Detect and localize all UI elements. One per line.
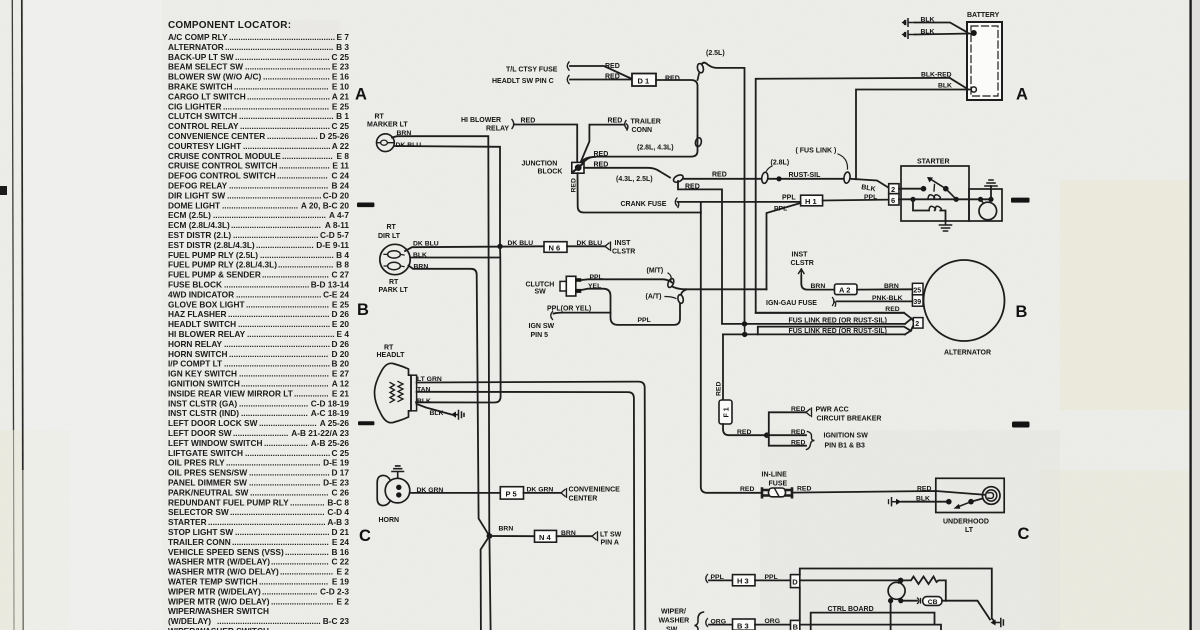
label UNDERHOOD LT <box>943 519 989 535</box>
svg-text:E 25: E 25 <box>332 299 349 309</box>
coil2 to ground <box>940 211 945 222</box>
curly bracket wiper sw <box>695 612 704 630</box>
svg-text:INST CLSTR (IND): INST CLSTR (IND) <box>168 408 239 418</box>
label BRN right of N4 <box>561 530 576 537</box>
label DK GRN left <box>417 487 444 494</box>
junction block lower feed: down, right, T at x700 <box>578 173 701 212</box>
svg-text:B 16: B 16 <box>331 547 349 557</box>
svg-text:E 2: E 2 <box>337 567 350 577</box>
motor terminal dots <box>888 598 893 603</box>
in-line fuse symbol <box>762 488 792 497</box>
battery box <box>967 22 1002 100</box>
svg-text:WIPER MTR (W/O DELAY): WIPER MTR (W/O DELAY) <box>168 596 270 606</box>
svg-text:B-C 23: B-C 23 <box>323 616 350 626</box>
svg-text:RED: RED <box>685 184 700 191</box>
svg-text:DK GRN: DK GRN <box>527 487 554 494</box>
starter solenoid wire pin6 <box>899 198 991 200</box>
svg-text:P 5: P 5 <box>506 490 517 499</box>
svg-text:RED: RED <box>791 440 805 447</box>
banner1 tip to pin 2 <box>912 319 914 321</box>
svg-text:HORN SWITCH: HORN SWITCH <box>168 349 227 359</box>
svg-text:..............................: ........................................… <box>224 359 330 369</box>
svg-text:E 19: E 19 <box>332 577 349 587</box>
wire T/L ctsy fuse to D1 <box>570 66 631 79</box>
ground stub 2 at battery <box>902 31 916 38</box>
wire junction block up-right to D1 branch <box>582 157 596 162</box>
svg-text:OIL PRES RLY: OIL PRES RLY <box>168 458 225 468</box>
svg-text:A/C COMP RLY: A/C COMP RLY <box>168 32 228 42</box>
connector bracket headlt sw pin C <box>567 76 569 84</box>
svg-text:DIR LT: DIR LT <box>378 233 401 240</box>
fusible loop (2.5L) <box>698 74 700 81</box>
svg-text:A: A <box>1016 86 1028 104</box>
svg-text:(M/T): (M/T) <box>647 267 664 274</box>
underhood switch dots <box>946 499 952 505</box>
label RED jb wire2 <box>594 162 609 169</box>
label (4.3L, 2.5L) <box>616 176 653 183</box>
svg-text:D 17: D 17 <box>331 468 349 478</box>
svg-text:INST CLSTR (GA): INST CLSTR (GA) <box>168 398 237 408</box>
svg-text:RED: RED <box>521 118 536 125</box>
wire DK BLU dir lamp to N6 <box>405 246 544 251</box>
wire rust-sil run to 2.8L loop <box>683 178 761 180</box>
svg-text:FUEL PUMP & SENDER: FUEL PUMP & SENDER <box>168 270 261 280</box>
wire BRN junction straight down <box>489 536 490 630</box>
wire branch middle to ignition sw <box>767 434 806 436</box>
label DK BLU mid <box>508 240 534 247</box>
wire BLK battery top 2 <box>915 34 971 35</box>
connector bracket trailer conn <box>625 121 628 131</box>
label PPL crank <box>782 195 796 202</box>
svg-text:IGNITION SW: IGNITION SW <box>824 432 869 439</box>
motor ground riser <box>990 186 992 199</box>
svg-text:FUSE BLOCK: FUSE BLOCK <box>168 280 222 290</box>
wire D to wiper motor <box>800 579 901 581</box>
svg-text:BEAM SELECT SW: BEAM SELECT SW <box>168 62 243 72</box>
junction block box <box>572 162 584 173</box>
svg-text:HI BLOWER: HI BLOWER <box>461 117 501 124</box>
alternator pin 39 box <box>912 295 923 306</box>
svg-text:..............................: ........................................… <box>227 190 322 200</box>
label RED rotated at F1 <box>716 382 723 396</box>
svg-text:.........................: ......................... <box>259 418 317 428</box>
label INST CLSTR upper <box>791 252 814 268</box>
H1 connector box <box>801 195 823 206</box>
label RED ign mid <box>791 429 805 436</box>
wire BRN junction continuation down-left <box>481 536 490 630</box>
long vertical x700 down to in-line fuse <box>701 213 762 493</box>
svg-text:..............................: ........................................… <box>224 339 330 349</box>
connector D <box>791 575 800 588</box>
svg-text:RED: RED <box>594 151 609 158</box>
terminator inst clstr wire <box>605 242 611 251</box>
svg-text:RT: RT <box>387 224 397 231</box>
leader fus link label <box>838 154 848 169</box>
wire motor to CB <box>901 600 917 602</box>
wire BRN from marker light down page <box>392 136 489 536</box>
svg-text:E 8: E 8 <box>337 151 350 161</box>
svg-text:B-C 8: B-C 8 <box>327 497 349 507</box>
svg-text:(W/DELAY): (W/DELAY) <box>168 616 211 626</box>
junction dot on motor top <box>898 578 904 584</box>
svg-text:CONVENIENCE CENTER: CONVENIENCE CENTER <box>168 131 265 141</box>
RT dir/park lamp <box>380 244 410 274</box>
svg-text:CONVENIENCE: CONVENIENCE <box>569 487 621 494</box>
wire motor left terminal down <box>890 601 892 630</box>
svg-text:(4.3L, 2.5L): (4.3L, 2.5L) <box>616 176 653 183</box>
svg-text:PANEL DIMMER SW: PANEL DIMMER SW <box>168 478 247 488</box>
starter ground symbol <box>940 221 952 231</box>
connector bracket T/L ctsy fuse <box>567 62 569 70</box>
label PPL(OR YEL) <box>547 306 591 313</box>
starter switch contact dots <box>921 186 927 192</box>
svg-text:RED: RED <box>917 485 931 492</box>
wire A2 to pin 25 <box>857 288 912 290</box>
riser x700 to crank wire <box>700 202 702 213</box>
svg-text:T/L CTSY FUSE: T/L CTSY FUSE <box>506 67 558 74</box>
starter switch arm <box>930 179 946 189</box>
connector B3 <box>733 619 756 630</box>
connector N4 <box>535 530 557 542</box>
label ORG wiper right <box>765 618 780 625</box>
svg-text:..............................: ..................................... <box>236 289 321 299</box>
leader 2.8L label <box>767 166 773 171</box>
svg-text:RUST-SIL: RUST-SIL <box>789 172 822 179</box>
connector B <box>791 620 800 631</box>
svg-text:C 27: C 27 <box>331 270 349 280</box>
connector P5 <box>500 487 523 499</box>
stub connecting banner dots <box>744 324 746 335</box>
wire N4 to LT SW PIN A <box>557 535 593 537</box>
label BLK ground wire <box>430 410 444 417</box>
junction dot banner2 x745 <box>742 332 747 337</box>
bracket ORG wiper <box>706 619 708 627</box>
label JUNCTION BLOCK <box>522 161 563 176</box>
svg-text:BRN: BRN <box>811 283 826 290</box>
svg-text:GLOVE BOX LIGHT: GLOVE BOX LIGHT <box>168 299 245 309</box>
svg-text:6: 6 <box>891 196 895 205</box>
label RT PARK LT <box>379 279 409 294</box>
wire node to PPL riser <box>686 288 767 290</box>
solenoid coil 2 branch <box>913 199 929 210</box>
svg-text:ORG: ORG <box>711 618 726 625</box>
label WIPER/WASHER SW <box>659 609 690 634</box>
starter motor circle <box>979 202 997 220</box>
svg-text:RED: RED <box>665 76 680 83</box>
svg-text:E 16: E 16 <box>332 72 349 82</box>
svg-text:BLK: BLK <box>938 83 952 90</box>
svg-text:IN-LINE: IN-LINE <box>762 472 788 479</box>
svg-text:HEADLT SW PIN C: HEADLT SW PIN C <box>492 78 554 85</box>
svg-text:A 2: A 2 <box>839 286 850 295</box>
wire TAN headlight <box>417 392 635 630</box>
svg-text:..............................: .............................. <box>259 577 328 587</box>
wire B connector into board <box>800 625 941 630</box>
connector N6 <box>544 242 567 253</box>
label BLK-RED <box>921 72 952 79</box>
label LT SW PIN A <box>600 531 622 546</box>
svg-text:A 20, B-C 20: A 20, B-C 20 <box>301 200 349 210</box>
svg-text:CRUISE CONTROL MODULE: CRUISE CONTROL MODULE <box>168 151 281 161</box>
svg-text:2: 2 <box>891 185 895 194</box>
label PPL before pin6 <box>864 194 877 201</box>
svg-text:UNDERHOOD: UNDERHOOD <box>943 519 989 526</box>
svg-text:INSIDE REAR VIEW MIRROR LT: INSIDE REAR VIEW MIRROR LT <box>168 388 293 398</box>
breaker CB box <box>923 597 942 606</box>
label HEADLT SW PIN C <box>492 78 554 85</box>
svg-text:PIN A: PIN A <box>601 539 619 546</box>
svg-text:DEFOG RELAY: DEFOG RELAY <box>168 181 228 191</box>
svg-text:COURTESY LIGHT: COURTESY LIGHT <box>168 141 241 151</box>
svg-text:...................: ................... <box>285 547 329 557</box>
label DK GRN right <box>527 487 554 494</box>
svg-text:A 25-26: A 25-26 <box>320 418 350 428</box>
left page edge line 1 <box>12 0 13 430</box>
svg-text:..............................: ........................................… <box>235 52 330 62</box>
svg-text:DOME LIGHT: DOME LIGHT <box>168 200 220 210</box>
svg-text:MARKER LT: MARKER LT <box>367 122 408 129</box>
alternator circle <box>924 260 1005 341</box>
svg-text:E 10: E 10 <box>332 82 349 92</box>
label PPL wiper right <box>765 574 778 581</box>
label RED on headlt wire <box>605 74 620 81</box>
svg-text:.......................: ....................... <box>280 567 333 577</box>
wire A/T loop to node <box>681 290 686 295</box>
svg-text:..............................: ...................................... <box>247 329 335 339</box>
wire stub loop to red vertical branch <box>678 181 722 324</box>
svg-text:PPL: PPL <box>864 194 877 201</box>
svg-text:LEFT WINDOW SWITCH: LEFT WINDOW SWITCH <box>168 438 262 448</box>
svg-text:A: A <box>355 86 367 104</box>
label ALTERNATOR <box>944 350 991 357</box>
label TRAILER CONN <box>631 119 661 135</box>
svg-text:E 2: E 2 <box>337 596 350 606</box>
svg-text:.............................: ............................. <box>262 270 329 280</box>
svg-text:PPL: PPL <box>765 574 778 581</box>
svg-text:RED: RED <box>594 162 609 169</box>
svg-text:C 25: C 25 <box>331 121 349 131</box>
wire 2.5L branch to x745 vertical <box>702 63 745 324</box>
fus link banner 1 wire line <box>722 323 905 325</box>
svg-text:RED: RED <box>712 172 727 179</box>
svg-text:..............................: .................................. <box>250 487 328 497</box>
svg-text:D: D <box>792 578 798 587</box>
connector bracket ign sw <box>551 312 553 320</box>
svg-text:C 25: C 25 <box>331 52 349 62</box>
svg-text:PPL: PPL <box>711 574 724 581</box>
label PPL on riser diagonal <box>774 206 787 213</box>
svg-text:SELECTOR SW: SELECTOR SW <box>168 507 229 517</box>
svg-text:E 20: E 20 <box>332 319 349 329</box>
section divider dash left A/B <box>357 203 374 208</box>
svg-text:FUEL PUMP RLY (2.8L/4.3L): FUEL PUMP RLY (2.8L/4.3L) <box>168 260 277 270</box>
svg-text:(A/T): (A/T) <box>646 293 662 300</box>
svg-text:TRAILER: TRAILER <box>631 119 661 126</box>
fusible loop (2.8L) <box>761 172 769 184</box>
svg-text:B-D 13-14: B-D 13-14 <box>311 280 350 290</box>
wire BLK park lamp down to headlt blk <box>410 246 500 402</box>
svg-text:BRN: BRN <box>884 283 899 290</box>
horn symbol <box>385 478 410 503</box>
svg-text:WIPER/WASHER SWITCH: WIPER/WASHER SWITCH <box>168 626 269 630</box>
horn ground symbol <box>392 466 404 478</box>
svg-text:..............................: ............................... <box>249 478 320 488</box>
svg-text:..............................: ........................................… <box>234 82 329 92</box>
connector H3 <box>733 575 756 586</box>
svg-text:B: B <box>1016 303 1028 321</box>
svg-text:BLK: BLK <box>921 17 935 24</box>
svg-text:..............................: ................................ <box>260 250 334 260</box>
svg-text:PIN B1 & B3: PIN B1 & B3 <box>825 442 866 449</box>
underhood lt box <box>936 478 1004 512</box>
label RED hi blower wire <box>521 118 536 125</box>
svg-text:ORG: ORG <box>765 618 780 625</box>
label HI BLOWER RELAY <box>461 117 509 133</box>
svg-text:..............................: ...................................... <box>243 141 331 151</box>
svg-text:E 23: E 23 <box>332 62 349 72</box>
PPL riser from clutch run to H1 <box>767 203 801 289</box>
starter pin 2 box <box>889 184 899 194</box>
label PNK-BLK <box>872 295 903 302</box>
svg-text:STARTER: STARTER <box>168 517 207 527</box>
wire hi blower relay to junction block <box>514 125 577 163</box>
svg-text:...................: ................... <box>264 438 308 448</box>
component locator list <box>168 20 349 635</box>
connector D1 <box>632 74 656 87</box>
wire to H3 <box>709 579 733 581</box>
label ( FUS LINK ) <box>796 148 837 155</box>
svg-text:ECM (2.5L): ECM (2.5L) <box>168 210 211 220</box>
svg-text:WIPER/WASHER SWITCH: WIPER/WASHER SWITCH <box>168 606 269 616</box>
svg-text:D 20: D 20 <box>331 349 349 359</box>
label RED jb wire1 <box>594 151 609 158</box>
leader A/T <box>665 297 676 299</box>
svg-text:SW: SW <box>535 289 547 296</box>
label RED after F1 <box>737 429 751 436</box>
wire BLK battery top 1 <box>915 23 968 33</box>
label TAN <box>417 386 431 393</box>
svg-text:WATER TEMP SWTICH: WATER TEMP SWTICH <box>168 577 258 587</box>
svg-text:A 4-7: A 4-7 <box>329 210 349 220</box>
wire ign sw pin5 to YEL descender <box>554 312 611 315</box>
svg-text:B 3: B 3 <box>336 42 349 52</box>
headlight filaments <box>398 382 403 402</box>
svg-text:D-E 23: D-E 23 <box>323 478 349 488</box>
svg-text:CIG LIGHTER: CIG LIGHTER <box>168 101 221 111</box>
label LT GRN <box>417 376 442 383</box>
underhood bulb <box>982 487 1000 505</box>
label PWR ACC CIRCUIT BREAKER <box>816 407 882 423</box>
svg-text:..............................: ........................................… <box>235 527 330 537</box>
label DK BLU right <box>577 240 603 247</box>
inst clstr arrow <box>799 269 805 276</box>
left page edge line 2 <box>22 0 23 470</box>
label BRN before A2 <box>811 283 826 290</box>
wire D1 output to 2.5L loop and down-branch <box>656 80 698 136</box>
svg-text:TRAILER CONN: TRAILER CONN <box>168 537 231 547</box>
svg-text:A 22: A 22 <box>332 141 350 151</box>
label BRN left of N4 <box>499 526 514 533</box>
label CTRL BOARD <box>828 606 874 613</box>
svg-text:...........................: ........................... <box>271 596 333 606</box>
svg-text:BLK: BLK <box>413 252 427 259</box>
fusible loop (2.8L,4.3L) on down branch <box>695 137 703 147</box>
svg-text:CONN: CONN <box>632 127 653 134</box>
svg-text:..............................: .................................... <box>247 91 330 101</box>
starter motor housing box <box>969 189 1002 221</box>
label ORG wiper left <box>711 618 726 625</box>
svg-text:C: C <box>359 527 371 545</box>
battery top terminal <box>971 30 977 36</box>
junction block bus blob <box>575 164 582 171</box>
svg-text:REDUNDANT FUEL PUMP RLY: REDUNDANT FUEL PUMP RLY <box>168 497 289 507</box>
label BLK batt2 <box>921 29 935 36</box>
label BRN before pin25 <box>884 283 899 290</box>
svg-text:C-D 5-7: C-D 5-7 <box>320 230 349 240</box>
label CONVENIENCE CENTER <box>569 487 621 503</box>
svg-text:39: 39 <box>913 299 921 306</box>
svg-text:BLK: BLK <box>430 410 444 417</box>
svg-text:LT GRN: LT GRN <box>417 376 442 383</box>
svg-text:RED: RED <box>605 74 620 81</box>
connector A2 <box>835 284 858 295</box>
connector bracket hi blower relay <box>512 120 514 129</box>
svg-text:..............................: ........................................… <box>226 458 321 468</box>
wire BLK battery to starter pin2 <box>856 90 971 180</box>
svg-text:BRN: BRN <box>414 263 429 270</box>
svg-text:HI BLOWER RELAY: HI BLOWER RELAY <box>168 329 246 339</box>
svg-text:DK BLU: DK BLU <box>508 240 534 247</box>
label DK BLU lamp <box>413 241 439 248</box>
svg-text:RED: RED <box>605 63 620 70</box>
connector bracket crank fuse <box>675 198 679 208</box>
svg-text:CLUTCH SWITCH: CLUTCH SWITCH <box>168 111 237 121</box>
svg-text:......................: ...................... <box>277 171 328 181</box>
svg-text:D-E 19: D-E 19 <box>323 458 349 468</box>
ctrl board box <box>800 569 996 623</box>
svg-text:A 8-11: A 8-11 <box>325 220 350 230</box>
svg-text:D 26: D 26 <box>331 339 349 349</box>
svg-text:HAZ FLASHER: HAZ FLASHER <box>168 309 227 319</box>
wire switch to solenoid run <box>946 189 956 200</box>
svg-text:RED: RED <box>791 406 805 413</box>
label BLK headlight <box>417 398 431 405</box>
wire F1 to branch dot <box>723 424 767 435</box>
label RED above banner1 <box>885 306 899 313</box>
label CRANK FUSE <box>621 201 667 208</box>
label BLK batt1 <box>921 17 935 24</box>
label BLK slanted at pin2 <box>861 184 876 193</box>
svg-text:STOP LIGHT SW: STOP LIGHT SW <box>168 527 233 537</box>
bracket ign-gau fuse <box>833 298 836 307</box>
battery inner dashed border <box>971 26 998 96</box>
svg-text:WASHER MTR (W/DELAY): WASHER MTR (W/DELAY) <box>168 557 270 567</box>
wiper inner box lines <box>811 613 935 630</box>
svg-text:RT: RT <box>384 345 394 352</box>
svg-text:B 4: B 4 <box>336 250 349 260</box>
label (A/T) <box>646 293 662 300</box>
label RUST-SIL <box>789 172 822 179</box>
label RED before fuse <box>740 486 754 493</box>
svg-text:......................: ...................... <box>267 131 318 141</box>
label IN-LINE FUSE <box>762 472 788 488</box>
svg-text:BATTERY: BATTERY <box>967 12 1000 19</box>
svg-text:RED: RED <box>791 429 805 436</box>
label BLK lamp <box>413 252 427 259</box>
wire BLK-RED slant into battery <box>950 78 968 89</box>
banner2 tip to pin 2 <box>911 326 914 331</box>
svg-text:BLOWER SW (W/O A/C): BLOWER SW (W/O A/C) <box>168 72 261 82</box>
